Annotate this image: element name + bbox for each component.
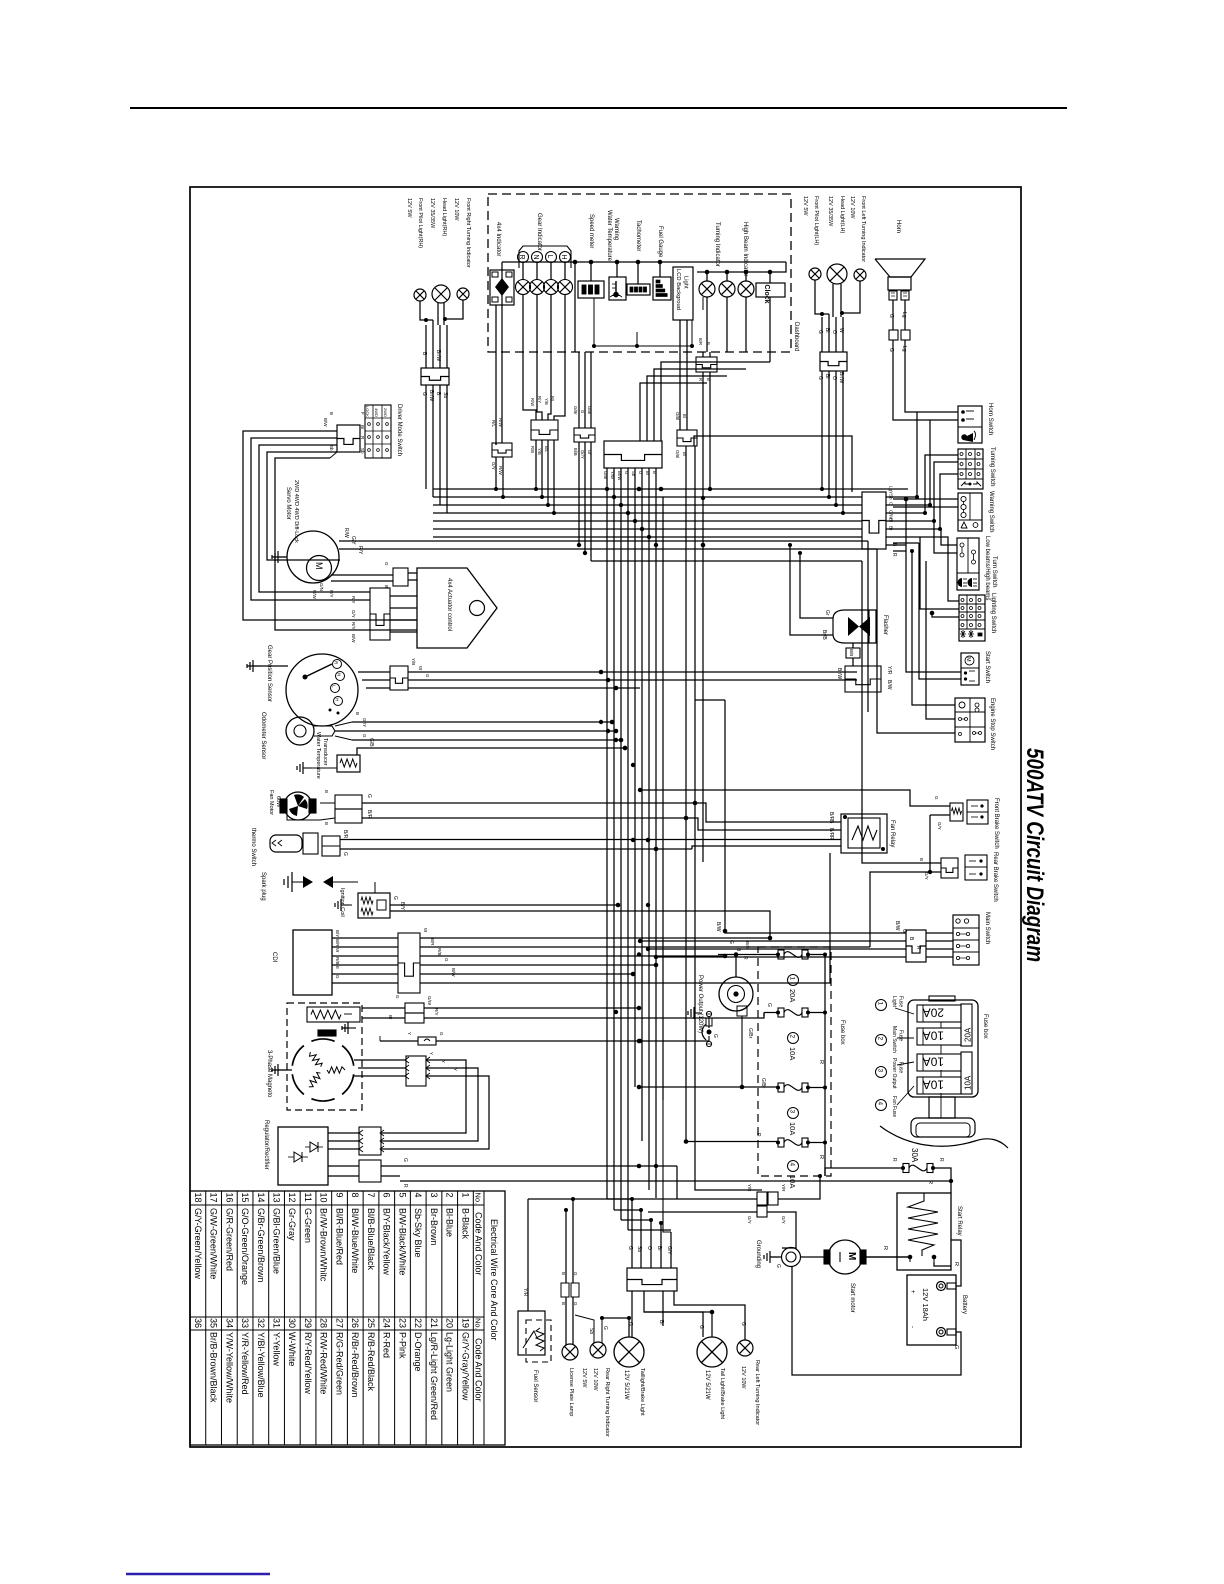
svg-text:14: 14 xyxy=(256,1193,266,1203)
svg-text:10A: 10A xyxy=(788,1175,797,1188)
svg-text:R: R xyxy=(882,1246,888,1250)
svg-text:B-Black: B-Black xyxy=(460,1208,470,1240)
svg-text:Y/R: Y/R xyxy=(522,1288,528,1297)
svg-text:10A: 10A xyxy=(923,1029,944,1043)
svg-text:R/W: R/W xyxy=(498,418,503,428)
svg-text:R: R xyxy=(402,1184,408,1188)
svg-text:17: 17 xyxy=(209,1193,219,1203)
svg-text:1: 1 xyxy=(877,1002,884,1006)
svg-text:24: 24 xyxy=(382,1318,392,1328)
svg-text:B/W: B/W xyxy=(894,921,900,931)
svg-text:Spark plug: Spark plug xyxy=(260,872,266,901)
svg-text:G: G xyxy=(395,995,400,999)
svg-text:Y-Yellow: Y-Yellow xyxy=(272,1332,282,1366)
svg-text:Water Temperature: Water Temperature xyxy=(606,210,612,262)
svg-text:R: R xyxy=(915,946,921,950)
svg-text:LgY: LgY xyxy=(889,486,894,494)
svg-text:Bl/R-Blue/Red: Bl/R-Blue/Red xyxy=(334,1208,344,1265)
svg-text:Code And Color: Code And Color xyxy=(474,1338,484,1402)
svg-text:Battery: Battery xyxy=(961,1295,967,1314)
svg-text:W: W xyxy=(838,328,844,333)
svg-text:Engine Stop Switch: Engine Stop Switch xyxy=(989,698,995,750)
svg-text:G/Br: G/Br xyxy=(760,1078,766,1089)
svg-text:G: G xyxy=(817,330,823,334)
svg-text:F: F xyxy=(360,412,365,415)
svg-text:Light: Light xyxy=(683,276,689,289)
svg-text:B/W: B/W xyxy=(715,922,721,932)
svg-text:Speed meter: Speed meter xyxy=(588,214,594,248)
svg-text:Servo Motor: Servo Motor xyxy=(285,487,291,520)
svg-text:Fan Relay: Fan Relay xyxy=(889,820,895,847)
svg-text:10A: 10A xyxy=(788,1047,797,1060)
svg-text:28: 28 xyxy=(319,1318,329,1328)
svg-text:G/Y: G/Y xyxy=(491,462,496,470)
svg-text:G/Br: G/Br xyxy=(573,406,578,415)
svg-text:G: G xyxy=(402,1158,408,1162)
svg-text:Y/R: Y/R xyxy=(781,1184,786,1192)
svg-text:35: 35 xyxy=(209,1318,219,1328)
svg-text:12V 10W: 12V 10W xyxy=(592,1368,598,1391)
svg-text:Gr/Y-Gray/Yellow: Gr/Y-Gray/Yellow xyxy=(460,1332,470,1401)
svg-text:26: 26 xyxy=(350,1318,360,1328)
svg-text:R/Y: R/Y xyxy=(329,590,334,598)
svg-text:12V 5/21W: 12V 5/21W xyxy=(704,1370,710,1400)
svg-text:G: G xyxy=(425,674,430,678)
svg-text:4: 4 xyxy=(413,1193,423,1198)
svg-text:Y/B: Y/B xyxy=(544,398,549,405)
svg-text:Turning Indicator: Turning Indicator xyxy=(714,222,720,267)
svg-text:CDI: CDI xyxy=(271,952,277,963)
svg-text:1: 1 xyxy=(460,1193,470,1198)
svg-text:500ATV Circuit Diagram: 500ATV Circuit Diagram xyxy=(1021,748,1048,962)
svg-text:Br: Br xyxy=(658,1320,664,1325)
svg-text:Bl/B: Bl/B xyxy=(573,448,578,456)
svg-text:18: 18 xyxy=(193,1193,203,1203)
svg-text:G: G xyxy=(573,1272,578,1276)
svg-text:12: 12 xyxy=(287,1193,297,1203)
svg-text:R/L: R/L xyxy=(491,420,496,428)
svg-text:Rear Left Turning Indicator: Rear Left Turning Indicator xyxy=(754,1360,760,1425)
svg-text:Bl: Bl xyxy=(889,518,894,522)
svg-text:Lighting Switch: Lighting Switch xyxy=(990,593,996,633)
svg-text:Clock: Clock xyxy=(763,285,770,304)
svg-text:R: R xyxy=(518,255,525,260)
svg-text:G: G xyxy=(421,392,427,396)
svg-text:R: R xyxy=(938,1158,944,1162)
svg-text:8: 8 xyxy=(350,1193,360,1198)
svg-text:R/W-Red/White: R/W-Red/White xyxy=(319,1332,329,1394)
svg-text:20: 20 xyxy=(445,1318,455,1328)
svg-text:O: O xyxy=(831,330,837,334)
svg-text:12V 35/35W: 12V 35/35W xyxy=(827,196,833,227)
svg-text:R: R xyxy=(818,1155,824,1159)
svg-text:Ignition Coil: Ignition Coil xyxy=(339,888,345,917)
svg-text:3-Phase Magneto: 3-Phase Magneto xyxy=(266,1050,272,1098)
svg-text:Y/R: Y/R xyxy=(886,666,892,675)
svg-text:R/Y: R/Y xyxy=(351,622,356,630)
svg-text:G: G xyxy=(766,1003,772,1007)
svg-text:Y: Y xyxy=(429,1052,434,1055)
svg-text:R/Br-Red/Brown: R/Br-Red/Brown xyxy=(350,1332,360,1398)
svg-text:22: 22 xyxy=(413,1318,423,1328)
svg-text:12V 10W: 12V 10W xyxy=(849,196,855,219)
svg-text:Br: Br xyxy=(360,425,365,430)
svg-text:B: B xyxy=(706,342,711,345)
svg-text:Y: Y xyxy=(453,1068,458,1071)
svg-text:R: R xyxy=(891,553,897,557)
svg-text:B/L: B/L xyxy=(550,396,555,403)
svg-text:Sb: Sb xyxy=(588,1328,594,1334)
svg-text:Gr/Y: Gr/Y xyxy=(580,450,585,459)
svg-text:Lg/R-Light Green/Red: Lg/R-Light Green/Red xyxy=(429,1332,439,1420)
svg-text:Gr-Gray: Gr-Gray xyxy=(287,1208,297,1241)
svg-text:Bl/W-Blue/White: Bl/W-Blue/White xyxy=(350,1208,360,1273)
svg-text:Tail Light/Brake Light: Tail Light/Brake Light xyxy=(719,1368,725,1420)
svg-text:G/Y: G/Y xyxy=(351,610,356,618)
svg-text:O: O xyxy=(889,502,894,506)
svg-text:R: R xyxy=(953,1262,959,1266)
svg-text:G: G xyxy=(573,1302,578,1306)
svg-text:Front Right Turning Indicator: Front Right Turning Indicator xyxy=(465,198,471,268)
svg-text:G/Y: G/Y xyxy=(350,536,356,545)
svg-text:Br/W: Br/W xyxy=(428,390,434,401)
svg-text:Y/B: Y/B xyxy=(411,658,416,665)
svg-text:Front Pilot Light(RH): Front Pilot Light(RH) xyxy=(417,198,423,248)
svg-text:H: H xyxy=(560,255,567,260)
svg-text:G: G xyxy=(335,975,340,979)
svg-text:G/Y: G/Y xyxy=(747,1216,752,1224)
svg-text:23: 23 xyxy=(397,1318,407,1328)
svg-text:Fuse: Fuse xyxy=(898,1030,904,1041)
svg-text:G: G xyxy=(439,1032,444,1036)
svg-text:Y/Bl-Yellow/Blue: Y/Bl-Yellow/Blue xyxy=(256,1332,266,1398)
svg-text:Fan Motor: Fan Motor xyxy=(268,790,274,815)
svg-text:G: G xyxy=(934,796,939,800)
svg-text:G/Y: G/Y xyxy=(937,822,942,830)
svg-text:36: 36 xyxy=(193,1318,203,1328)
svg-text:6: 6 xyxy=(382,1193,392,1198)
svg-text:G/Br: G/Br xyxy=(747,1028,753,1039)
svg-text:2WD: 2WD xyxy=(383,408,388,417)
svg-text:Bl/B-Blue/Black: Bl/B-Blue/Black xyxy=(366,1208,376,1271)
svg-text:Main Switch: Main Switch xyxy=(984,912,990,944)
svg-text:R/B-Red/Black: R/B-Red/Black xyxy=(366,1332,376,1392)
svg-text:Br: Br xyxy=(889,526,894,531)
svg-text:B/Y: B/Y xyxy=(335,930,340,937)
svg-text:4WD: 4WD xyxy=(374,408,379,417)
svg-text:Dashboard: Dashboard xyxy=(793,322,799,351)
svg-text:Gr: Gr xyxy=(824,610,830,616)
svg-text:12V 5W: 12V 5W xyxy=(802,196,808,216)
svg-text:Start motor: Start motor xyxy=(849,1283,855,1313)
svg-text:Fuse: Fuse xyxy=(898,996,904,1007)
svg-text:G: G xyxy=(366,794,372,798)
svg-text:Gear Position Sensor: Gear Position Sensor xyxy=(266,645,272,702)
svg-text:Horn: Horn xyxy=(895,220,901,233)
svg-text:Sb-Sky Blue: Sb-Sky Blue xyxy=(413,1208,423,1258)
svg-text:Rear Brake Switch: Rear Brake Switch xyxy=(992,852,998,902)
svg-text:M: M xyxy=(846,1252,857,1260)
svg-text:G: G xyxy=(775,1264,781,1268)
svg-text:G-Green: G-Green xyxy=(303,1208,313,1243)
svg-text:12V 18Ah: 12V 18Ah xyxy=(921,1288,930,1321)
svg-text:R/Y: R/Y xyxy=(357,546,363,555)
svg-text:R/Y: R/Y xyxy=(537,396,542,403)
svg-text:Electrical Wire Core And Color: Electrical Wire Core And Color xyxy=(489,1219,499,1341)
svg-text:Br/B-Brown/Black: Br/B-Brown/Black xyxy=(209,1332,219,1403)
svg-text:Fuel Sensor: Fuel Sensor xyxy=(532,1370,538,1402)
svg-text:W-White: W-White xyxy=(287,1332,297,1366)
svg-text:Head Light(RH): Head Light(RH) xyxy=(441,198,447,236)
svg-text:12V 5/21W: 12V 5/21W xyxy=(623,1370,629,1400)
svg-text:License Plate Lamp: License Plate Lamp xyxy=(568,1368,574,1416)
svg-text:B/W-Black/White: B/W-Black/White xyxy=(397,1208,407,1275)
svg-text:thermo Switch: thermo Switch xyxy=(250,828,256,866)
svg-text:R: R xyxy=(742,956,748,960)
svg-text:Br-Brown: Br-Brown xyxy=(429,1208,439,1246)
svg-text:16: 16 xyxy=(224,1193,234,1203)
svg-text:G/R-Green/Red: G/R-Green/Red xyxy=(224,1208,234,1271)
svg-text:Start Switch: Start Switch xyxy=(984,651,990,683)
svg-text:4: 4 xyxy=(789,1163,796,1167)
svg-text:B/Y-Black/Yellow: B/Y-Black/Yellow xyxy=(382,1208,392,1275)
svg-text:B/R: B/R xyxy=(366,810,372,819)
svg-text:LCD Backgroud: LCD Backgroud xyxy=(675,269,681,310)
svg-text:1: 1 xyxy=(789,977,796,981)
svg-text:G: G xyxy=(740,1322,746,1326)
svg-text:R-Red: R-Red xyxy=(382,1332,392,1358)
svg-text:Code And Color: Code And Color xyxy=(474,1212,484,1276)
svg-text:G: G xyxy=(342,852,348,856)
svg-text:2: 2 xyxy=(789,1035,796,1039)
svg-text:R: R xyxy=(698,378,703,381)
svg-text:2: 2 xyxy=(445,1193,455,1198)
svg-text:R/W: R/W xyxy=(498,466,503,476)
svg-text:G/Y: G/Y xyxy=(781,1216,786,1224)
svg-text:Lg-Light Green: Lg-Light Green xyxy=(445,1332,455,1392)
svg-text:9: 9 xyxy=(334,1193,344,1198)
svg-text:12V 10W: 12V 10W xyxy=(453,198,459,221)
svg-text:Gear Indicator: Gear Indicator xyxy=(536,213,542,251)
svg-text:B/W: B/W xyxy=(886,680,892,690)
svg-text:High Beam Indicator: High Beam Indicator xyxy=(742,222,748,276)
svg-text:G: G xyxy=(444,958,449,962)
svg-text:G/Br-Green/Brown: G/Br-Green/Brown xyxy=(256,1208,266,1283)
svg-text:2WD 4WD 4WD Diff-Lock: 2WD 4WD 4WD Diff-Lock xyxy=(293,480,299,543)
svg-text:Taillight/Brake Light: Taillight/Brake Light xyxy=(639,1368,645,1416)
svg-text:R: R xyxy=(818,1060,824,1064)
svg-text:Y/W-Yellow/White: Y/W-Yellow/White xyxy=(224,1332,234,1403)
svg-text:B/B: B/B xyxy=(849,649,854,656)
svg-text:10: 10 xyxy=(319,1193,329,1203)
svg-text:Y: Y xyxy=(407,1032,412,1035)
svg-text:Transducer: Transducer xyxy=(322,738,328,766)
svg-text:R/Y: R/Y xyxy=(434,1008,439,1016)
svg-text:No.: No. xyxy=(474,1318,483,1330)
svg-text:21: 21 xyxy=(429,1318,439,1328)
svg-text:G/Bl-Green/Blue: G/Bl-Green/Blue xyxy=(272,1208,282,1274)
svg-text:B/R: B/R xyxy=(342,830,348,839)
svg-text:B: B xyxy=(706,378,711,381)
svg-text:27: 27 xyxy=(334,1318,344,1328)
svg-text:Bl: Bl xyxy=(824,328,830,332)
svg-text:30: 30 xyxy=(287,1318,297,1328)
svg-text:Grounding: Grounding xyxy=(755,1240,761,1268)
svg-text:Br/W-Brown/Whitc: Br/W-Brown/Whitc xyxy=(319,1208,329,1282)
svg-text:Low beams/High beams: Low beams/High beams xyxy=(984,536,990,600)
svg-text:15: 15 xyxy=(240,1193,250,1203)
svg-text:B/W: B/W xyxy=(451,968,456,977)
svg-text:Y/R: Y/R xyxy=(747,1184,752,1192)
svg-text:5: 5 xyxy=(397,1193,407,1198)
svg-text:O/Bl: O/Bl xyxy=(675,450,680,458)
svg-text:Bl-Blue: Bl-Blue xyxy=(445,1208,455,1237)
svg-text:12V 35/35W: 12V 35/35W xyxy=(429,198,435,229)
svg-text:Start Relay: Start Relay xyxy=(956,1206,962,1236)
svg-text:R/W: R/W xyxy=(312,590,317,600)
svg-text:Fuse box: Fuse box xyxy=(839,1020,845,1045)
svg-text:Warning Switch: Warning Switch xyxy=(988,491,994,532)
svg-text:34: 34 xyxy=(224,1318,234,1328)
svg-text:Turn Switch: Turn Switch xyxy=(991,556,997,587)
svg-text:19: 19 xyxy=(460,1318,470,1328)
svg-text:Br/W: Br/W xyxy=(836,668,842,679)
svg-text:G: G xyxy=(580,410,585,413)
svg-text:B/R: B/R xyxy=(430,938,435,946)
svg-text:33: 33 xyxy=(240,1318,250,1328)
svg-text:Rear Right Turning Indicator: Rear Right Turning Indicator xyxy=(604,1368,610,1437)
svg-text:B/R: B/R xyxy=(698,338,703,345)
svg-text:13: 13 xyxy=(272,1193,282,1203)
svg-text:R/Y-Red/Yellow: R/Y-Red/Yellow xyxy=(303,1332,313,1394)
svg-text:30A: 30A xyxy=(910,1148,919,1163)
svg-text:4x4 Indicator: 4x4 Indicator xyxy=(495,222,501,256)
svg-text:G: G xyxy=(953,1345,959,1349)
svg-text:Head Light(LH): Head Light(LH) xyxy=(839,196,845,233)
svg-text:31: 31 xyxy=(272,1318,282,1328)
svg-text:+: + xyxy=(909,1290,915,1294)
svg-text:Y/R-Yellow/Red: Y/R-Yellow/Red xyxy=(240,1332,250,1395)
svg-text:G/B: G/B xyxy=(368,738,374,747)
svg-text:4x4 Actuator control: 4x4 Actuator control xyxy=(446,578,452,631)
svg-text:Y/B: Y/B xyxy=(537,448,542,455)
svg-text:B: B xyxy=(355,712,360,715)
svg-text:No.: No. xyxy=(474,1193,483,1205)
svg-text:Warning: Warning xyxy=(613,218,619,240)
svg-text:Water Temperature: Water Temperature xyxy=(315,732,321,779)
svg-text:Sb: Sb xyxy=(442,392,448,398)
svg-text:E: E xyxy=(335,966,340,969)
svg-text:29: 29 xyxy=(303,1318,313,1328)
svg-text:G: G xyxy=(627,1322,633,1326)
svg-text:3: 3 xyxy=(877,1069,884,1073)
svg-text:Flasher: Flasher xyxy=(882,615,888,635)
svg-text:Fuel Gauge: Fuel Gauge xyxy=(657,226,663,258)
svg-text:Y: Y xyxy=(441,1060,446,1063)
svg-text:Front Left Turning Indicator: Front Left Turning Indicator xyxy=(860,196,866,262)
svg-text:Power Output (120W): Power Output (120W) xyxy=(697,975,703,1033)
svg-text:Main Switch: Main Switch xyxy=(891,1026,897,1053)
svg-text:Regulator/Rectifier: Regulator/Rectifier xyxy=(263,1120,269,1170)
svg-text:G/Y-Green/Yellow: G/Y-Green/Yellow xyxy=(193,1208,203,1279)
svg-text:11: 11 xyxy=(303,1193,313,1202)
svg-text:25: 25 xyxy=(366,1318,376,1328)
svg-text:20A: 20A xyxy=(788,989,797,1002)
svg-text:Sb: Sb xyxy=(360,448,365,454)
svg-text:4: 4 xyxy=(877,1102,884,1106)
svg-text:H: H xyxy=(335,698,340,701)
svg-text:D-Orange: D-Orange xyxy=(413,1332,423,1372)
svg-text:7: 7 xyxy=(366,1193,376,1198)
svg-text:Turning Switch: Turning Switch xyxy=(989,447,995,486)
svg-text:Gr/Y: Gr/Y xyxy=(362,718,367,727)
svg-text:Lg: Lg xyxy=(901,312,907,318)
svg-text:20A: 20A xyxy=(923,1006,944,1020)
svg-text:M: M xyxy=(965,657,971,662)
svg-text:3: 3 xyxy=(789,1110,796,1114)
svg-text:R/B: R/B xyxy=(530,446,535,453)
svg-text:R/W: R/W xyxy=(343,528,349,538)
svg-text:Driver Mode Switch: Driver Mode Switch xyxy=(396,404,402,456)
svg-text:B: B xyxy=(324,822,329,825)
svg-text:Fan Fuse: Fan Fuse xyxy=(891,1096,897,1117)
svg-text:Front Pilot Light(LH): Front Pilot Light(LH) xyxy=(813,196,819,245)
svg-text:12V 5W: 12V 5W xyxy=(581,1368,587,1388)
svg-text:Front Brake Switch: Front Brake Switch xyxy=(993,798,999,849)
svg-text:B/Y: B/Y xyxy=(399,902,405,911)
svg-text:R: R xyxy=(891,1158,897,1162)
svg-text:Fuse box: Fuse box xyxy=(982,1014,988,1039)
svg-text:G/Y: G/Y xyxy=(924,872,929,880)
svg-text:Tachometer: Tachometer xyxy=(635,220,641,251)
svg-text:B/W: B/W xyxy=(323,418,328,427)
svg-text:G/O-Green/Orange: G/O-Green/Orange xyxy=(240,1208,250,1285)
svg-text:B/R: B/R xyxy=(335,939,340,947)
svg-text:12V 10W: 12V 10W xyxy=(740,1366,746,1389)
svg-text:Gr: Gr xyxy=(587,450,592,455)
svg-text:2: 2 xyxy=(877,1037,884,1041)
svg-text:32: 32 xyxy=(256,1318,266,1328)
svg-text:B: B xyxy=(329,412,334,415)
svg-text:20A: 20A xyxy=(964,1027,973,1042)
svg-text:L: L xyxy=(546,255,553,259)
svg-text:G: G xyxy=(392,896,398,900)
svg-text:Sb: Sb xyxy=(329,445,334,451)
svg-text:Br/W: Br/W xyxy=(435,350,441,361)
svg-text:3: 3 xyxy=(429,1193,439,1198)
svg-text:10A: 10A xyxy=(964,1075,973,1090)
svg-text:B: B xyxy=(561,1302,566,1305)
svg-text:R/B: R/B xyxy=(335,957,340,965)
svg-text:G: G xyxy=(888,314,894,318)
svg-text:12V 5W: 12V 5W xyxy=(406,198,412,218)
svg-text:G: G xyxy=(728,940,734,944)
svg-text:N: N xyxy=(337,673,342,676)
svg-text:G/W: G/W xyxy=(427,996,432,1006)
svg-text:B: B xyxy=(324,790,329,793)
svg-text:O/Bl: O/Bl xyxy=(675,412,680,420)
svg-text:Power Output: Power Output xyxy=(891,1058,897,1089)
svg-text:Br: Br xyxy=(388,1015,393,1020)
svg-text:G: G xyxy=(362,734,367,738)
svg-text:G/Bl: G/Bl xyxy=(587,406,592,414)
svg-text:G/N: G/N xyxy=(319,583,324,591)
svg-text:G: G xyxy=(602,1326,608,1330)
svg-text:R/B: R/B xyxy=(437,948,442,956)
svg-text:R/Y: R/Y xyxy=(351,596,356,604)
svg-text:N: N xyxy=(532,255,539,260)
svg-text:10A: 10A xyxy=(923,1078,944,1092)
